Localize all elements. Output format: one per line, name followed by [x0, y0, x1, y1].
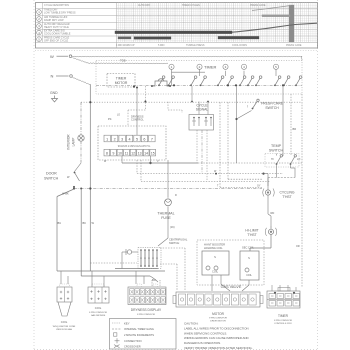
svg-text:FUSE: FUSE	[161, 216, 171, 220]
svg-text:HI-LIMIT: HI-LIMIT	[245, 229, 258, 233]
svg-text:W: W	[50, 54, 54, 59]
wire right bus 302	[301, 94, 303, 250]
timer motor coil	[151, 79, 171, 87]
svg-text:WHEN SERVICING CONTROLS.: WHEN SERVICING CONTROLS.	[184, 331, 227, 335]
label RD	[271, 211, 275, 215]
label BR	[293, 127, 297, 131]
svg-text:HI: HI	[271, 158, 274, 161]
svg-text:LO: LO	[117, 115, 120, 117]
connector block enclosure	[98, 126, 166, 160]
timer connector	[267, 288, 300, 309]
wire fuse to motor	[158, 238, 168, 246]
svg-text:CROSSOVER: CROSSOVER	[124, 345, 141, 349]
node timer junction e	[282, 84, 284, 86]
wire mid bus 81 vertical	[80, 189, 82, 277]
caution note	[184, 322, 253, 350]
wire motor right dashed	[160, 248, 185, 291]
wire cycling to hilimit	[268, 203, 271, 226]
label motor connector	[209, 312, 227, 323]
wire temp sw feed left	[276, 154, 278, 156]
wire motor left lead	[122, 252, 138, 269]
wire page border right	[317, 0, 319, 350]
wire fresh care diagonal	[237, 111, 252, 120]
node timer junction c	[227, 84, 229, 86]
svg-text:12: 12	[131, 152, 135, 156]
svg-text:SWITCH: SWITCH	[269, 149, 284, 153]
fresh care switch S2	[247, 99, 259, 109]
label motor switch	[169, 238, 188, 245]
wire ladder y187 stub	[220, 186, 262, 188]
timer chart footer labels	[116, 44, 302, 47]
svg-text:6 PIN CONN FOR: 6 PIN CONN FOR	[89, 312, 107, 314]
svg-text:CONTROLS 115V: CONTROLS 115V	[274, 323, 292, 325]
wire lamp branch upper	[80, 102, 82, 135]
svg-text:CYCLE DESCRIPTION: CYCLE DESCRIPTION	[44, 4, 69, 7]
svg-text:SEC COIL: SEC COIL	[242, 246, 255, 250]
svg-text:W/SQ IGNITOR CONN: W/SQ IGNITOR CONN	[53, 326, 76, 328]
label dogleg speck	[117, 115, 120, 117]
svg-text:9: 9	[113, 152, 115, 156]
coil connector	[88, 284, 109, 303]
svg-text:RD: RD	[271, 211, 275, 215]
label TEMP SWITCH	[269, 144, 284, 153]
wire N bus vertical	[89, 84, 91, 271]
wire door sw to junction	[73, 188, 75, 189]
timer cam numbers 1-5	[169, 64, 279, 69]
svg-text:8 PIN CONN FOR: 8 PIN CONN FOR	[137, 314, 155, 316]
label connector mid row	[118, 145, 151, 148]
drive motor M2 switch block	[138, 248, 161, 269]
timer enclosure box	[96, 61, 302, 95]
wire timer to connector	[136, 88, 138, 136]
label P4	[108, 115, 144, 122]
node N line terminal	[51, 74, 54, 79]
svg-text:(16): (16)	[170, 225, 175, 229]
node junction N-door	[89, 187, 91, 189]
wire lamp feed dotted	[81, 101, 302, 103]
ground GND	[50, 91, 58, 102]
svg-text:SWITCH: SWITCH	[265, 106, 279, 110]
svg-text:6: 6	[143, 138, 145, 142]
svg-text:LAMP: LAMP	[72, 138, 76, 147]
svg-text:13: 13	[138, 152, 142, 156]
node timer-conn junction	[136, 87, 138, 89]
label ignitor	[53, 320, 76, 331]
svg-text:TIMER: TIMER	[116, 77, 127, 81]
legend key box	[110, 319, 177, 350]
svg-text:COIL: COIL	[61, 320, 68, 324]
wire cycle feed dogleg	[168, 102, 182, 113]
svg-text:T'HST: T'HST	[247, 233, 257, 237]
svg-text:PRESS CARE: PRESS CARE	[250, 4, 266, 7]
svg-text:S: S	[248, 256, 250, 260]
wire timer dogleg feed	[128, 86, 145, 126]
svg-text:PRESS CARE: PRESS CARE	[286, 44, 302, 47]
svg-text:DOOR: DOOR	[46, 172, 57, 176]
label DOOR SWITCH	[44, 172, 59, 181]
svg-text:BU: BU	[58, 221, 62, 225]
label HI-LIMIT THST	[245, 229, 258, 238]
wire cycle out drop 1	[196, 130, 198, 163]
svg-text:SWITCH: SWITCH	[169, 241, 179, 245]
wire cam2 drop	[199, 69, 201, 76]
wire fuse lower lead	[168, 206, 175, 238]
cycle signal buzzer	[189, 115, 214, 131]
svg-text:9 PIN CONN FOR: 9 PIN CONN FOR	[209, 317, 227, 319]
svg-text:R: R	[175, 194, 177, 197]
svg-text:KEY: KEY	[124, 321, 130, 325]
wire N lead	[56, 75, 69, 77]
svg-text:SWITCH: SWITCH	[44, 177, 59, 181]
wire conn pin drop a	[121, 156, 123, 163]
label coil connector	[89, 306, 107, 317]
svg-text:4 MIN WARM UP: 4 MIN WARM UP	[116, 44, 135, 47]
thermal fuse F1	[165, 199, 172, 206]
wire cam feed line	[172, 71, 206, 73]
wire ladder y174	[137, 173, 283, 175]
wire gasvalve bottom leads	[212, 275, 249, 291]
wire cycle sig drop R	[227, 102, 229, 179]
dryness display connector	[128, 284, 166, 305]
timer chart grid	[36, 3, 318, 49]
wire cam1 drop	[171, 69, 173, 85]
connector pins 1-7	[104, 135, 155, 142]
label W2	[92, 221, 95, 225]
wire motor bottom run	[115, 268, 158, 270]
door switch S1	[67, 172, 80, 188]
wire conn pin drop b	[150, 156, 152, 163]
wire cycle out drop 3	[206, 130, 208, 181]
svg-text:TIMER: TIMER	[278, 314, 289, 318]
svg-text:VIEW FOR GAS: VIEW FOR GAS	[56, 328, 73, 331]
svg-text:SIGNAL: SIGNAL	[196, 108, 209, 112]
svg-text:VERIFY PROPER OPERATION AFTER: VERIFY PROPER OPERATION AFTER SERVICING.	[184, 346, 253, 350]
svg-text:COIL: COIL	[212, 270, 219, 274]
wire door diag to left bus	[57, 189, 74, 197]
svg-text:4: 4	[129, 138, 131, 142]
node door junction	[73, 187, 75, 189]
wire ladder drop b	[140, 160, 142, 181]
svg-text:COOL DOWN: COOL DOWN	[232, 44, 247, 47]
wire timer conn leads	[272, 285, 296, 291]
wire right bus 283	[282, 86, 284, 157]
wire coil conn leads	[92, 271, 104, 287]
label TIMER	[204, 65, 217, 70]
wire ladder y181	[141, 180, 270, 182]
svg-text:14: 14	[144, 152, 148, 156]
svg-text:2 MINUTE INCREMENTS: 2 MINUTE INCREMENTS	[124, 333, 154, 337]
svg-text:COIL: COIL	[246, 274, 252, 277]
node conn bottom junction	[149, 162, 151, 164]
svg-text:COIL: COIL	[95, 306, 102, 310]
wire left bus vertical	[56, 197, 58, 272]
label TDB	[120, 59, 126, 63]
svg-text:BR: BR	[293, 127, 297, 131]
timer cam contacts 2	[168, 76, 290, 86]
wire temp sw outputs	[277, 164, 296, 178]
wire page border bottom	[34, 348, 318, 350]
svg-text:TDB: TDB	[120, 59, 126, 63]
wire lamp branch lower	[80, 141, 82, 163]
label BU	[58, 221, 62, 225]
gas valve enclosure	[197, 240, 264, 285]
wire lamp to door switch	[75, 163, 82, 172]
svg-text:WIRING ERRORS CAN CAUSE IMPROP: WIRING ERRORS CAN CAUSE IMPROPER AND	[184, 336, 249, 340]
wire W lead	[57, 55, 69, 57]
label INTERIOR LAMP	[67, 134, 76, 150]
svg-text:AUTO DRY: AUTO DRY	[138, 4, 151, 7]
wire cycling feed	[267, 178, 269, 187]
wire W zigzag to timer (top run)	[72, 56, 302, 60]
svg-text:THERMAL: THERMAL	[157, 211, 174, 215]
wire hilimit to gas valve	[250, 248, 271, 251]
svg-text:P4: P4	[108, 117, 112, 121]
svg-text:TIMER: TIMER	[204, 65, 217, 70]
label timer connector	[274, 314, 292, 325]
svg-text:COOL DOWN TUMBLE: COOL DOWN TUMBLE	[44, 33, 71, 36]
label CYCLING THST	[279, 191, 294, 200]
wire cycle out drop 2	[201, 130, 203, 174]
svg-text:9911633 21SPL91ZLAP6 HG: 9911633 21SPL91ZLAP6 HG	[118, 145, 151, 148]
wire ladder drop a	[136, 160, 138, 174]
svg-text:1: 1	[106, 138, 108, 142]
wire cam5 drop	[275, 69, 277, 76]
wire fresh care drop	[290, 94, 292, 156]
node temp junction	[262, 173, 264, 175]
wire N diagonal	[73, 77, 91, 84]
svg-text:TIMED CYCLES: TIMED CYCLES	[182, 4, 200, 7]
svg-text:CYCLING: CYCLING	[279, 191, 294, 195]
motor protector	[126, 249, 134, 255]
wire cycle sig drop L	[219, 102, 221, 187]
svg-text:DAMP DRY LOW: DAMP DRY LOW	[44, 19, 64, 22]
wire temp stub	[264, 174, 269, 186]
svg-text:FRESH CARE: FRESH CARE	[261, 102, 284, 106]
svg-text:CONTROL: CONTROL	[131, 118, 144, 122]
connector W plug	[69, 55, 72, 58]
svg-text:CONNECTION: CONNECTION	[124, 339, 142, 343]
node timer junction d	[235, 84, 237, 86]
gas valve coil 1	[202, 251, 229, 275]
label GAS VALVE	[221, 285, 242, 289]
svg-text:7: 7	[151, 138, 153, 142]
wire ladder y163	[122, 162, 302, 164]
label CYCLE SIGNAL	[196, 103, 209, 111]
motor connector	[173, 292, 263, 307]
wire right bus 302 lower	[301, 250, 303, 287]
wire fresh care bus	[236, 86, 238, 163]
svg-text:HI-INT BOOSTER: HI-INT BOOSTER	[204, 243, 225, 247]
svg-text:LOW TUMBLE DRY PRESS: LOW TUMBLE DRY PRESS	[44, 12, 76, 15]
svg-text:DRYNESS DISPLAY: DRYNESS DISPLAY	[131, 308, 162, 312]
svg-text:15: 15	[151, 152, 155, 156]
svg-text:T'HST: T'HST	[282, 195, 292, 199]
wire motor merge	[150, 276, 158, 282]
gas valve coil 2	[240, 251, 259, 280]
svg-text:BK: BK	[83, 221, 87, 225]
svg-text:LO: LO	[297, 158, 300, 161]
svg-text:INTERIOR: INTERIOR	[67, 134, 71, 150]
wire door run dashdot	[74, 188, 262, 190]
svg-text:HEAVY DUTY CYCLE: HEAVY DUTY CYCLE	[44, 26, 69, 29]
node junction N-lamp	[89, 101, 91, 103]
wire fuse drop from conn	[167, 160, 169, 198]
wire cam3 drop	[225, 71, 227, 76]
svg-text:TUMBLE PRESS: TUMBLE PRESS	[186, 44, 205, 47]
svg-text:CAUTION:: CAUTION:	[184, 322, 199, 326]
wire cycle signal feeds	[191, 86, 209, 115]
svg-text:MOTOR: MOTOR	[212, 312, 225, 316]
svg-text:GAS VALVE: GAS VALVE	[221, 285, 242, 289]
svg-text:GAS DRYERS: GAS DRYERS	[91, 314, 106, 317]
svg-text:S: S	[214, 255, 216, 259]
svg-text:LABEL ALL WIRES PRIOR TO DISCO: LABEL ALL WIRES PRIOR TO DISCONNECTION	[184, 327, 249, 331]
svg-text:5 MIN: 5 MIN	[158, 44, 165, 47]
label W-BK	[62, 192, 69, 196]
node ladder junction 174	[215, 173, 217, 175]
node timer junction b	[173, 84, 175, 86]
label THERMAL FUSE	[157, 211, 174, 220]
wire page border left	[33, 0, 35, 350]
node fresh care junction	[235, 118, 237, 120]
label FRESH CARE SWITCH	[261, 102, 284, 111]
timer chart cam bars	[115, 5, 317, 42]
svg-text:OR: OR	[296, 245, 300, 248]
ignitor plug	[57, 284, 72, 316]
svg-text:10: 10	[118, 152, 122, 156]
svg-text:N: N	[51, 74, 54, 79]
temp switch S3	[265, 154, 300, 168]
label coil2	[242, 246, 255, 250]
svg-text:GND: GND	[50, 91, 58, 95]
wire ignitor leads	[61, 271, 68, 284]
svg-text:TEMP: TEMP	[271, 144, 282, 148]
svg-text:(: (	[247, 104, 248, 108]
svg-text:11: 11	[125, 152, 129, 156]
svg-text:OFF END OF CYCLE: OFF END OF CYCLE	[44, 39, 69, 42]
svg-text:2: 2	[114, 138, 116, 142]
timer chart row labels	[44, 4, 266, 43]
wire bus81 bottom run	[81, 275, 150, 277]
svg-text:DRIVE MOTOR: DRIVE MOTOR	[210, 320, 226, 322]
wire ladder y179 stub	[228, 178, 262, 180]
wire dryness leads	[136, 271, 160, 287]
wire W branch into timer	[88, 63, 168, 64]
wire timer internal bus	[96, 85, 302, 87]
lamp interior	[78, 135, 84, 141]
wire bus57 bottom run	[57, 270, 165, 272]
connector N plug	[70, 75, 73, 78]
label wire specks	[104, 160, 300, 248]
svg-text:INTERNAL TIMER GANG: INTERNAL TIMER GANG	[124, 327, 154, 331]
wire chart lower dotted rule	[35, 50, 317, 52]
svg-text:5: 5	[136, 138, 138, 142]
connector pins 8-14	[104, 149, 156, 156]
label BK	[83, 221, 87, 225]
cycling thermostat	[263, 186, 275, 203]
timer motor M1 box	[107, 74, 135, 88]
node lamp line junction2	[144, 101, 146, 103]
svg-text:DANGEROUS OPERATION.: DANGEROUS OPERATION.	[184, 341, 221, 345]
svg-text:8: 8	[106, 152, 108, 156]
svg-text:W-BK: W-BK	[62, 192, 69, 196]
svg-text:8 PIN CONN FOR: 8 PIN CONN FOR	[274, 320, 292, 322]
label dryness display	[131, 308, 162, 316]
hi-limit thermostat	[265, 226, 277, 248]
svg-text:3: 3	[121, 138, 123, 142]
wire cam4 drop	[243, 71, 245, 76]
wire bus90 to motor	[90, 262, 137, 264]
timer chart row numbers	[37, 10, 42, 42]
wire motor right dashed 2	[160, 264, 177, 291]
label coil1	[204, 243, 225, 250]
svg-text:MOTOR: MOTOR	[115, 81, 128, 85]
node timer junction a	[133, 86, 135, 88]
svg-text:HOLDING COIL: HOLDING COIL	[204, 246, 223, 250]
timer cam contacts	[158, 76, 302, 86]
node junction door-81	[80, 188, 82, 190]
wire W branch diagonal	[73, 57, 89, 63]
wire temp sw collector	[268, 177, 295, 179]
svg-text:BU: BU	[152, 278, 156, 282]
node W line terminal	[50, 54, 54, 59]
